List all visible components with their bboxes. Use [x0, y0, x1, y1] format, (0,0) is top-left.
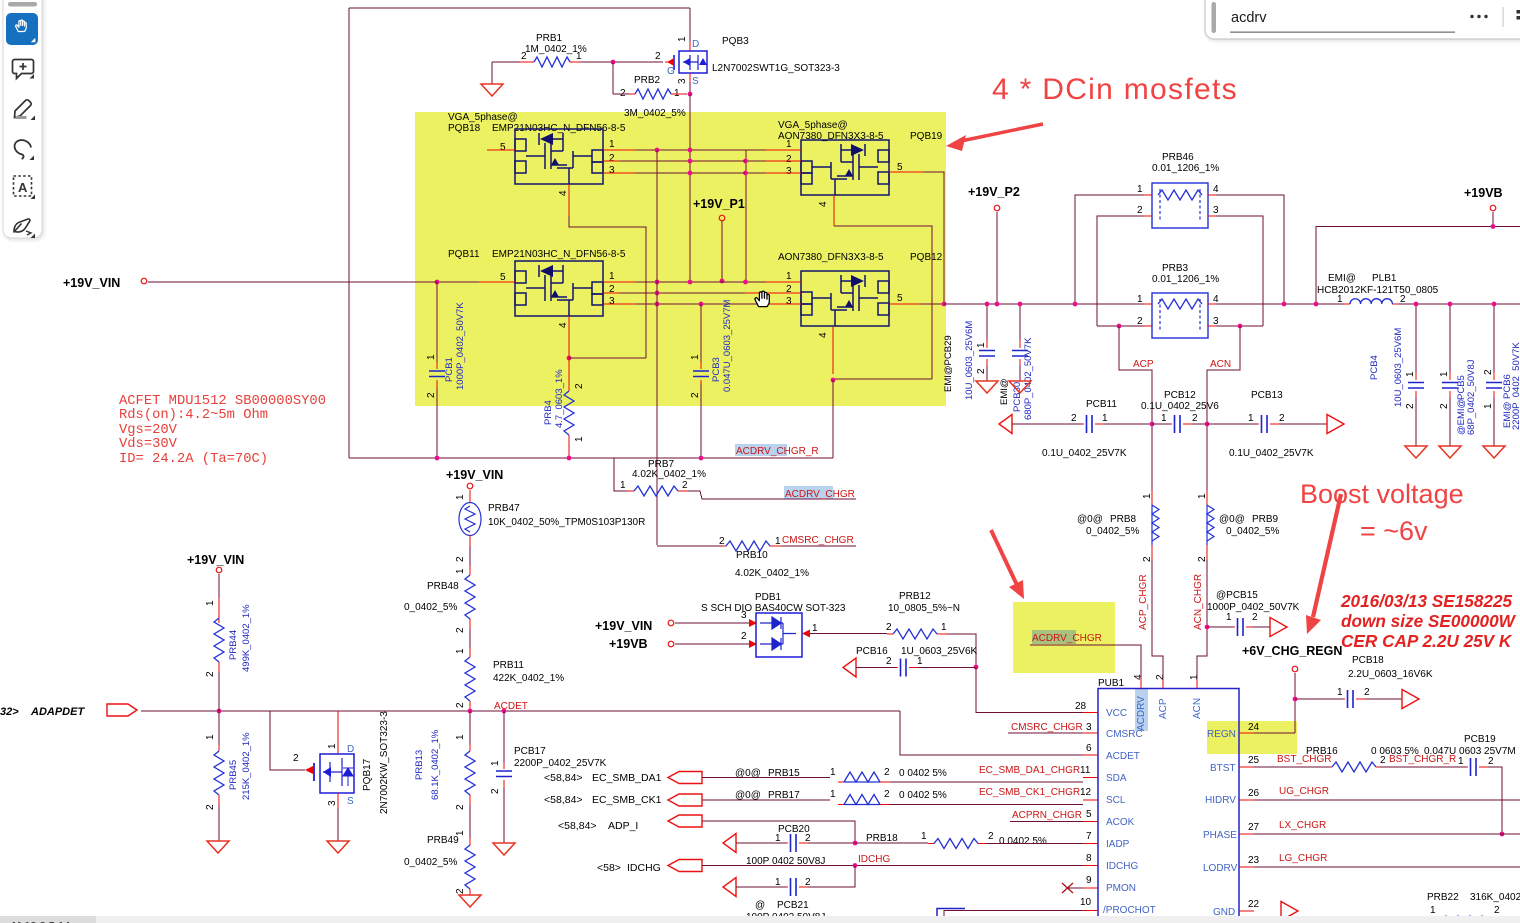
svg-text:2: 2	[490, 788, 501, 794]
capacitor PCB5	[1439, 304, 1477, 446]
svg-text:/PROCHOT: /PROCHOT	[1103, 905, 1156, 916]
svg-text:4: 4	[558, 190, 569, 196]
svg-text:0.01_1206_1%: 0.01_1206_1%	[1152, 163, 1219, 174]
svg-text:1: 1	[775, 877, 781, 888]
capacitor PCB20	[723, 824, 855, 867]
svg-text:1: 1	[1337, 294, 1343, 305]
svg-text:22: 22	[1248, 899, 1260, 910]
svg-text:PRB44: PRB44	[228, 630, 239, 660]
svg-text:2: 2	[805, 833, 811, 844]
svg-text:PRB9: PRB9	[1252, 514, 1279, 525]
svg-text:2: 2	[1197, 556, 1208, 562]
capacitor PCB11	[1042, 399, 1152, 459]
node PQB11 pin4	[567, 356, 572, 361]
svg-text:2: 2	[1483, 369, 1494, 375]
svg-text:1: 1	[775, 833, 781, 844]
svg-text:3: 3	[609, 296, 615, 307]
svg-text:1: 1	[812, 623, 818, 634]
svg-text:PCB12: PCB12	[1164, 390, 1196, 401]
svg-text:EMI@: EMI@	[1328, 273, 1356, 284]
svg-text:IDCHG: IDCHG	[1106, 861, 1138, 872]
svg-text:@0@: @0@	[735, 790, 761, 801]
svg-text:PRB17: PRB17	[768, 790, 800, 801]
svg-text:2: 2	[1142, 556, 1153, 562]
svg-text:2N7002KW_SOT323-3: 2N7002KW_SOT323-3	[379, 711, 390, 814]
net +19V_VIN (PRB44 stack)	[187, 553, 244, 606]
resistor PRB48	[404, 566, 475, 654]
svg-text:1: 1	[1248, 413, 1254, 424]
transistor PQB3	[655, 8, 840, 94]
net +6V_CHG_REGN	[1242, 644, 1342, 733]
wire PQB18 pin4 loop	[569, 216, 646, 358]
resistor PRB49	[404, 835, 475, 895]
svg-text:1: 1	[1458, 756, 1464, 767]
svg-text:3: 3	[327, 800, 338, 806]
svg-text:6: 6	[1086, 743, 1092, 754]
svg-text:1: 1	[1337, 687, 1343, 698]
svg-text:ACN: ACN	[1210, 359, 1231, 370]
svg-text:2: 2	[293, 753, 299, 764]
search highlight ACDRV pin name	[1135, 688, 1148, 731]
svg-text:SCL: SCL	[1106, 795, 1126, 806]
button highlighter	[15, 100, 32, 118]
button ink signature	[14, 219, 32, 235]
svg-text:+19V_VIN: +19V_VIN	[63, 276, 120, 290]
svg-text:1: 1	[1102, 413, 1108, 424]
left pin stubs	[1083, 713, 1098, 911]
svg-text:+19V_P1: +19V_P1	[693, 197, 745, 211]
port EC_SMB_CK1	[544, 794, 830, 806]
net ACN	[1207, 326, 1240, 490]
svg-text:G: G	[667, 66, 675, 77]
svg-text:2: 2	[988, 831, 994, 842]
svg-text:1: 1	[1430, 905, 1436, 916]
svg-text:1: 1	[609, 139, 615, 150]
svg-text:2.2U_0603_16V6K: 2.2U_0603_16V6K	[1348, 669, 1433, 680]
svg-text:5: 5	[897, 162, 903, 173]
svg-text:down size SE00000W: down size SE00000W	[1341, 611, 1517, 631]
highlight big yellow box over DCin mosfets	[415, 112, 946, 406]
svg-text:1: 1	[941, 622, 947, 633]
svg-text:1: 1	[455, 568, 466, 574]
svg-text:S: S	[692, 76, 699, 87]
sense resistor PRB46	[1075, 152, 1284, 326]
svg-text:10U_0603_25V6M: 10U_0603_25V6M	[964, 321, 975, 400]
svg-text:PUB1: PUB1	[1098, 678, 1125, 689]
wire ACDET feed	[900, 711, 1083, 755]
svg-text:PRB11: PRB11	[493, 660, 524, 671]
svg-text:1: 1	[576, 51, 582, 62]
capacitor PCB18	[1295, 655, 1433, 708]
svg-text:1: 1	[426, 354, 437, 360]
net ACDET bus	[141, 710, 900, 712]
svg-text:5: 5	[500, 142, 506, 153]
wire PQB19 pin4 loop	[833, 226, 932, 379]
svg-text:27: 27	[1248, 822, 1260, 833]
svg-text:4: 4	[558, 322, 569, 328]
svg-text:2: 2	[886, 656, 892, 667]
svg-text:1U_0603_25V6K: 1U_0603_25V6K	[901, 646, 978, 657]
svg-text:<58,84>: <58,84>	[558, 820, 597, 832]
svg-text:1: 1	[455, 734, 466, 740]
svg-text:PCB4: PCB4	[1369, 355, 1380, 380]
ground (PRB1)	[481, 84, 503, 96]
svg-text:Vds=30V: Vds=30V	[119, 436, 178, 452]
search highlight ACDRV_CHGR_R	[735, 444, 787, 456]
svg-text:2: 2	[805, 877, 811, 888]
svg-text:PQB3: PQB3	[722, 36, 749, 47]
wire rows between top mosfets	[620, 150, 766, 173]
svg-text:PDB1: PDB1	[755, 592, 782, 603]
svg-text:2: 2	[884, 789, 890, 800]
svg-text:1: 1	[609, 271, 615, 282]
svg-text:<58>: <58>	[597, 862, 621, 874]
annotation text 2016/03/13	[1340, 591, 1517, 651]
resistor PRB2	[613, 62, 687, 119]
mosfet PQB12	[745, 252, 943, 374]
svg-text:EC_SMB_CK1: EC_SMB_CK1	[592, 794, 662, 806]
svg-text:PRB13: PRB13	[414, 750, 425, 780]
svg-text:1: 1	[1142, 493, 1153, 499]
wire PRB1 to gate node	[613, 61, 663, 63]
svg-text:ACDRV_CHGR_R: ACDRV_CHGR_R	[736, 446, 819, 457]
svg-text:2: 2	[1252, 612, 1258, 623]
svg-text:2: 2	[741, 631, 747, 642]
resistor PRB8	[1077, 490, 1159, 562]
capacitor PCB15	[1207, 590, 1300, 636]
svg-text:2: 2	[1155, 674, 1166, 680]
capacitor PCB30	[999, 304, 1034, 420]
svg-text:0.1U_0402_25V7K: 0.1U_0402_25V7K	[1229, 448, 1314, 459]
svg-text:3: 3	[1213, 316, 1219, 327]
ground (PRB49)	[459, 895, 481, 907]
port ADAPDET	[0, 704, 137, 718]
svg-text:0 0402 5%: 0 0402 5%	[999, 836, 1047, 847]
search highlight ACDRV_CHGR in yellow box	[1032, 630, 1076, 644]
port GND arrow	[1281, 902, 1298, 921]
svg-text:4.02K_0402_1%: 4.02K_0402_1%	[735, 568, 809, 579]
right pin stubs	[1239, 733, 1254, 911]
resistor PRB9	[1197, 490, 1279, 562]
svg-text:3: 3	[1213, 205, 1219, 216]
svg-text:EMI@PCB29: EMI@PCB29	[943, 335, 954, 392]
svg-text:9: 9	[1086, 875, 1092, 886]
highlight yellow box REGN	[1207, 721, 1297, 754]
svg-text:SDA: SDA	[1106, 773, 1127, 784]
no-connect PMON	[1062, 883, 1083, 893]
svg-text:5: 5	[897, 293, 903, 304]
svg-text:ACDRV_CHGR: ACDRV_CHGR	[785, 489, 855, 500]
wire mid rows bottom mosfets	[437, 282, 944, 304]
svg-text:5: 5	[500, 272, 506, 283]
svg-text:PHASE: PHASE	[1203, 830, 1237, 841]
svg-text:4: 4	[1133, 674, 1144, 680]
net LG_CHGR	[1254, 853, 1520, 867]
main bus +19V rail	[944, 303, 1520, 305]
svg-text:28: 28	[1075, 701, 1087, 712]
svg-text:1000P_0402_50V7K: 1000P_0402_50V7K	[455, 302, 466, 390]
resistor PRB13	[414, 711, 475, 838]
svg-text:PCB17: PCB17	[514, 746, 546, 757]
svg-text:1: 1	[205, 734, 216, 740]
top pin stubs	[1141, 678, 1197, 689]
svg-text:2: 2	[719, 536, 725, 547]
resistor PRB4	[543, 369, 585, 458]
svg-text:PRB22: PRB22	[1427, 892, 1459, 903]
svg-text:5: 5	[1086, 809, 1092, 820]
net ACP	[1119, 326, 1154, 490]
port arrow right	[1327, 415, 1344, 434]
highlight yellow box ACDRV_CHGR	[1013, 602, 1115, 673]
annotation arrow to mosfets	[946, 124, 1043, 151]
svg-text:ADAPDET: ADAPDET	[30, 706, 85, 718]
svg-text:PQB18: PQB18	[448, 123, 481, 134]
svg-text:= ~6v: = ~6v	[1360, 516, 1428, 546]
annotation red ACFET text	[119, 394, 326, 467]
svg-text:PCB21: PCB21	[777, 900, 809, 911]
svg-text:0.047U 0603 25V7M: 0.047U 0603 25V7M	[1424, 746, 1516, 757]
svg-text:23: 23	[1248, 855, 1260, 866]
capacitor PCB21	[723, 866, 855, 923]
net BST row / resistor PRB16	[1254, 746, 1468, 772]
svg-text:2: 2	[1137, 205, 1143, 216]
button text select	[14, 176, 32, 196]
svg-text:CER CAP 2.2U 25V K: CER CAP 2.2U 25V K	[1341, 631, 1513, 651]
ground (PCB30)	[1009, 381, 1031, 393]
svg-text:25: 25	[1248, 755, 1260, 766]
svg-text:1: 1	[917, 656, 923, 667]
svg-text:+19V_VIN: +19V_VIN	[446, 468, 503, 482]
svg-text:1: 1	[976, 342, 987, 348]
net +19V_VIN (main)	[63, 276, 437, 290]
resistor PRB45	[205, 711, 252, 841]
svg-text:IADP: IADP	[1106, 839, 1130, 850]
svg-text:1: 1	[921, 831, 927, 842]
capacitor PCB17	[490, 711, 607, 843]
svg-text:0.047U_0603_25V7M: 0.047U_0603_25V7M	[722, 299, 733, 392]
svg-text:PQB19: PQB19	[910, 131, 943, 142]
svg-text:HCB2012KF-121T50_0805: HCB2012KF-121T50_0805	[1317, 285, 1439, 296]
svg-text:PCB11: PCB11	[1086, 399, 1117, 410]
svg-text:2: 2	[1439, 403, 1450, 409]
resistor PRB12	[886, 591, 976, 667]
svg-text:PCB13: PCB13	[1251, 390, 1283, 401]
svg-text:ACFET MDU1512 SB00000SY00: ACFET MDU1512 SB00000SY00	[119, 394, 326, 409]
svg-text:ACDRV_CHGR: ACDRV_CHGR	[1032, 633, 1102, 644]
node ADP_I/PCB20	[853, 841, 858, 846]
net ACP_CHGR	[1138, 560, 1163, 678]
svg-text:VCC: VCC	[1106, 708, 1127, 719]
search highlight ACDRV_CHGR at PRB7	[784, 486, 833, 499]
svg-text:A: A	[18, 180, 28, 195]
svg-text:Vgs=20V: Vgs=20V	[119, 423, 178, 438]
svg-text:24: 24	[1248, 722, 1260, 733]
svg-text:4 * DCin mosfets: 4 * DCin mosfets	[992, 73, 1238, 106]
button comment	[13, 60, 34, 79]
svg-text:PCB19: PCB19	[1464, 734, 1496, 745]
svg-text:@0@: @0@	[735, 768, 761, 779]
svg-text:1: 1	[677, 36, 688, 42]
svg-text:1: 1	[786, 271, 792, 282]
resistor PRB11	[455, 648, 564, 711]
resistor PRB7	[614, 458, 856, 499]
svg-text:2: 2	[205, 804, 216, 810]
mosfet PQB18	[448, 112, 636, 216]
svg-text:2: 2	[786, 154, 792, 165]
svg-text:2: 2	[1488, 756, 1494, 767]
svg-text:10: 10	[1080, 897, 1092, 908]
svg-text:2016/03/13 SE158225: 2016/03/13 SE158225	[1340, 591, 1513, 611]
ground (PRB45)	[207, 841, 229, 853]
svg-text:PRB4: PRB4	[543, 400, 554, 425]
button lasso	[15, 140, 31, 159]
net +19V_VIN (PRB47 stack)	[446, 468, 503, 503]
svg-text:PRB3: PRB3	[1162, 263, 1189, 274]
svg-text:ACDET: ACDET	[1106, 751, 1140, 762]
svg-text:@PCB15: @PCB15	[1216, 590, 1258, 601]
sense resistor PRB3	[1097, 263, 1263, 338]
port ADP_I	[558, 815, 855, 843]
svg-text:BTST: BTST	[1210, 763, 1236, 774]
svg-text:IDCHG: IDCHG	[858, 854, 890, 865]
svg-text:ACPRN_CHGR: ACPRN_CHGR	[1012, 810, 1082, 821]
svg-text:1: 1	[490, 760, 501, 766]
net label ACDRV_CHGR (yellow box)	[1030, 633, 1141, 678]
svg-text:+19V_VIN: +19V_VIN	[187, 553, 244, 567]
svg-text:PRB10: PRB10	[736, 550, 768, 561]
svg-text:PQB17: PQB17	[362, 758, 373, 791]
svg-text:1: 1	[786, 139, 792, 150]
wire PQB19 pin5 to bus	[924, 172, 944, 304]
svg-text:4: 4	[818, 332, 829, 338]
svg-text:UG_CHGR: UG_CHGR	[1279, 786, 1329, 797]
wire PQB19 pins 1-3 to vertical x=745	[745, 150, 766, 281]
svg-text:3M_0402_5%: 3M_0402_5%	[624, 108, 686, 119]
svg-text:1: 1	[690, 354, 701, 360]
svg-text:1: 1	[205, 600, 216, 606]
svg-text:+19VB: +19VB	[1464, 186, 1503, 200]
net UG_CHGR	[1254, 786, 1520, 800]
resistor PRB17	[735, 789, 1083, 805]
svg-text:ACN_CHGR: ACN_CHGR	[1193, 574, 1204, 630]
dual diode PDB1	[595, 592, 887, 657]
svg-text:PRB18: PRB18	[866, 833, 898, 844]
ground (PCB17)	[493, 843, 515, 855]
node PQB3 source	[688, 92, 693, 97]
svg-text:CMSRC_CHGR: CMSRC_CHGR	[782, 535, 854, 546]
svg-text:1: 1	[1405, 371, 1416, 377]
svg-text:0 0402 5%: 0 0402 5%	[899, 790, 947, 801]
wire PQB3 source down to mosfet rows	[689, 94, 691, 281]
svg-text:PRB45: PRB45	[228, 760, 239, 790]
svg-text:PRB48: PRB48	[427, 581, 459, 592]
svg-text:2: 2	[455, 627, 466, 633]
capacitor PCB29	[943, 304, 995, 400]
svg-text:2: 2	[690, 392, 701, 398]
svg-text:316K_0402: 316K_0402	[1470, 892, 1520, 903]
svg-text:1: 1	[620, 480, 626, 491]
svg-text:+19V_VIN: +19V_VIN	[595, 619, 652, 633]
capacitor PCB6	[1483, 304, 1520, 446]
svg-text:2: 2	[1364, 687, 1370, 698]
svg-text:ADP_I: ADP_I	[608, 820, 638, 832]
svg-text:PRB15: PRB15	[768, 768, 800, 779]
ground (PQB17)	[327, 841, 349, 853]
svg-text:68P_0402_50V8J: 68P_0402_50V8J	[1466, 359, 1477, 435]
svg-text:1: 1	[775, 536, 781, 547]
capacitor PCB12	[1141, 390, 1219, 433]
svg-text:2: 2	[521, 51, 527, 62]
svg-text:2: 2	[455, 556, 466, 562]
svg-text:1: 1	[574, 436, 585, 442]
svg-text:PRB46: PRB46	[1162, 152, 1194, 163]
resistor PRB1	[492, 33, 613, 84]
svg-text:1: 1	[1197, 493, 1208, 499]
svg-text:0.01_1206_1%: 0.01_1206_1%	[1152, 274, 1219, 285]
svg-text:1: 1	[1137, 294, 1143, 305]
svg-text:2200P_0402_25V7K: 2200P_0402_25V7K	[514, 758, 607, 769]
svg-text:EC_SMB_CK1_CHGR: EC_SMB_CK1_CHGR	[979, 787, 1080, 798]
svg-text:2: 2	[884, 767, 890, 778]
svg-text:PRB1: PRB1	[536, 33, 563, 44]
svg-text:0.1U_0402_25V7K: 0.1U_0402_25V7K	[1042, 448, 1127, 459]
svg-text:2200P_0402_50V7K: 2200P_0402_50V7K	[1511, 342, 1520, 430]
resistor PRB10	[657, 536, 856, 579]
svg-text:1: 1	[1137, 184, 1143, 195]
capacitor PCB4	[1369, 304, 1424, 446]
svg-text:1: 1	[455, 494, 466, 500]
svg-text:PQB11: PQB11	[448, 249, 480, 260]
svg-text:2: 2	[574, 383, 585, 389]
net label ACPRN_CHGR	[1010, 810, 1083, 822]
svg-text:3: 3	[609, 165, 615, 176]
svg-text:7: 7	[1086, 831, 1092, 842]
svg-text:2: 2	[886, 622, 892, 633]
svg-text:2: 2	[976, 368, 987, 374]
svg-text:+19V_P2: +19V_P2	[968, 185, 1020, 199]
thermistor PRB47	[455, 503, 645, 567]
mosfet PQB19	[766, 120, 943, 226]
svg-text:215K_0402_1%: 215K_0402_1%	[241, 732, 252, 800]
vertical link x=657	[656, 150, 658, 545]
svg-text:@: @	[755, 900, 765, 911]
svg-text:@0@: @0@	[1077, 514, 1103, 525]
svg-text:PCB3: PCB3	[711, 357, 722, 382]
svg-text:<58,84>: <58,84>	[544, 772, 583, 784]
svg-text:1: 1	[1161, 413, 1167, 424]
svg-text:0 0402 5%: 0 0402 5%	[899, 768, 947, 779]
button hand tool (active)	[6, 13, 38, 45]
net +19V_P1	[693, 197, 745, 283]
svg-text:10_0805_5%~N: 10_0805_5%~N	[888, 603, 960, 614]
svg-text:10U_0603_25V6M: 10U_0603_25V6M	[1393, 328, 1404, 407]
svg-text:3: 3	[741, 610, 747, 621]
bus wire ACDRV_CHGR_R	[349, 380, 833, 458]
node junction	[611, 60, 616, 65]
svg-text:LODRV: LODRV	[1203, 863, 1238, 874]
svg-text:26: 26	[1248, 788, 1260, 799]
port EC_SMB_DA1	[544, 772, 830, 785]
capacitor PCB16	[843, 646, 978, 677]
svg-text:PRB49: PRB49	[427, 835, 459, 846]
node PQB12 pin4	[831, 378, 836, 383]
svg-text:EC_SMB_DA1_CHGR: EC_SMB_DA1_CHGR	[979, 765, 1080, 776]
net LX_CHGR	[1254, 820, 1520, 834]
part corner bottom	[937, 909, 965, 923]
svg-text:2: 2	[205, 671, 216, 677]
svg-text:PCB16: PCB16	[856, 646, 888, 657]
svg-text:1: 1	[830, 767, 836, 778]
